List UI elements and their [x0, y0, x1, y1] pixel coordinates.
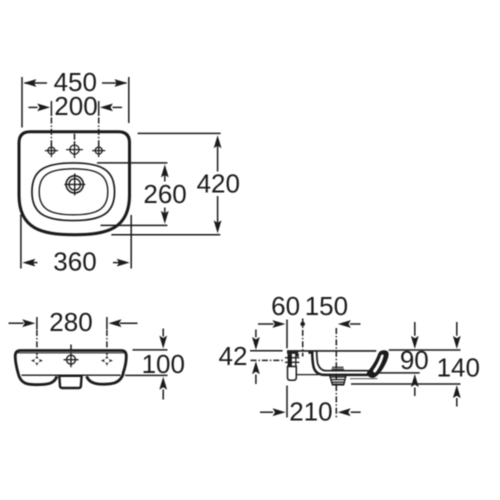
centerline right hole — [98, 118, 100, 147]
dim 200 arrow right — [113, 106, 123, 108]
svg-text:260: 260 — [143, 179, 186, 209]
dim 280 tick left — [36, 317, 38, 330]
dim 100 arrow down — [162, 329, 164, 337]
dim 260 arrow up — [161, 164, 169, 177]
dim 280 arrow right — [120, 322, 138, 324]
dim 420 line lower — [217, 196, 219, 223]
side drain boss — [330, 374, 347, 385]
front left lobe — [18, 373, 57, 385]
dim 100 ext top — [133, 349, 168, 351]
side fixing hole line upper — [285, 357, 299, 359]
front centerline left — [36, 330, 38, 355]
front centerline middle — [70, 345, 72, 352]
dim 42 centerline horizontal — [251, 359, 285, 361]
drain crosshair — [64, 173, 85, 195]
dim 200 arrow left — [29, 106, 38, 108]
front body outline — [15, 351, 126, 374]
side wall ext line lower — [286, 386, 288, 418]
dim 360 ext line right — [130, 215, 132, 269]
dim 280 tick right — [106, 317, 108, 330]
side fixing hole line lower — [285, 361, 299, 363]
bowl inner ellipse — [39, 169, 108, 215]
dim 200 tick right — [98, 101, 100, 116]
front right lobe — [87, 373, 124, 384]
dim 450 ext line right — [128, 77, 130, 123]
dim 450 line right — [102, 82, 126, 84]
front centerline right — [106, 330, 108, 355]
dim 210 arrow left — [260, 411, 273, 413]
side deck bar left — [287, 352, 298, 354]
svg-text:150: 150 — [305, 291, 348, 321]
dim 140 ext bottom — [351, 383, 461, 385]
svg-text:60: 60 — [271, 291, 300, 321]
svg-text:42: 42 — [219, 341, 248, 371]
dim 60 dot — [300, 322, 305, 327]
side bowl left wall — [312, 354, 372, 375]
dim 360 arrow right — [113, 262, 127, 264]
dim 140 arrow down — [456, 322, 458, 336]
side back wall bar — [288, 354, 292, 367]
dim 260 ext line top — [97, 162, 167, 164]
centerline left hole — [50, 118, 52, 147]
dim 450 arrow right — [114, 79, 127, 87]
dim 42 ext line — [250, 350, 283, 352]
side drain recess lines — [332, 366, 344, 368]
faucet hole right — [92, 144, 105, 157]
front center tab — [59, 376, 81, 388]
dim 150 arrow — [350, 323, 361, 325]
dim 42 arrow up — [255, 375, 257, 385]
front fixing mark left — [31, 355, 43, 365]
dim 260 line lower — [164, 208, 166, 214]
svg-text:140: 140 — [437, 352, 480, 382]
dim 140 arrow up — [456, 398, 458, 407]
side skirt faint line — [350, 378, 378, 380]
faucet hole left — [45, 144, 58, 157]
dim 260 line upper — [164, 175, 166, 182]
side back wall inner edge — [295, 354, 297, 367]
dim 90 arrow down — [414, 322, 416, 336]
dim 360 ext line left — [20, 215, 22, 269]
side back lobe — [288, 367, 297, 381]
centerline middle hole — [74, 134, 76, 144]
side wall ext line upper — [286, 320, 288, 349]
dim 420 ext line bottom — [111, 234, 220, 236]
side profile top rim line — [287, 350, 376, 352]
dim 260 ext line bottom — [101, 224, 168, 226]
dim 210 arrow right — [351, 411, 361, 413]
faucet hole middle — [66, 141, 83, 158]
front center hole — [64, 352, 79, 367]
dim 90 arrow up — [414, 388, 416, 397]
svg-text:360: 360 — [53, 247, 96, 277]
dim 450 arrow left — [23, 79, 36, 87]
svg-text:90: 90 — [400, 345, 429, 375]
dim 100 ext bottom — [125, 374, 168, 376]
bowl outer ellipse — [32, 163, 115, 221]
dim 450 line left — [25, 82, 48, 84]
side deck bar right — [308, 352, 313, 354]
svg-text:200: 200 — [54, 91, 97, 121]
dim 420 ext line top — [138, 132, 221, 134]
dim 90 ext top — [389, 349, 461, 351]
dim 360 arrow left — [26, 262, 38, 264]
front fixing mark right — [101, 355, 113, 365]
dim 42 arrow down — [255, 330, 257, 338]
side centerline faucet — [302, 319, 304, 357]
dim 280 arrow left — [9, 322, 24, 324]
basin outline (top view) — [19, 132, 130, 235]
side right rim — [367, 350, 389, 378]
side underside line — [296, 374, 318, 376]
dim 420 line upper — [217, 146, 219, 172]
dim 200 tick left — [50, 101, 52, 116]
side centerline drain — [335, 328, 337, 419]
dim 420 arrow down — [214, 220, 222, 233]
svg-text:280: 280 — [49, 307, 92, 337]
dim 420 arrow up — [214, 135, 222, 148]
dim 450 ext line left — [21, 77, 23, 128]
svg-text:100: 100 — [142, 349, 185, 379]
dim 90 ext bottom — [377, 372, 420, 374]
dim 100 arrow up — [162, 390, 164, 400]
dim 60 arrow — [258, 323, 274, 325]
dim 260 arrow down — [161, 211, 169, 224]
side tap hole edge — [296, 354, 299, 357]
front rim inner top line — [18, 352, 124, 354]
front bottom thin edge — [22, 374, 121, 376]
svg-text:210: 210 — [289, 397, 332, 427]
svg-text:420: 420 — [197, 169, 240, 199]
side bowl inner edge — [317, 351, 371, 371]
